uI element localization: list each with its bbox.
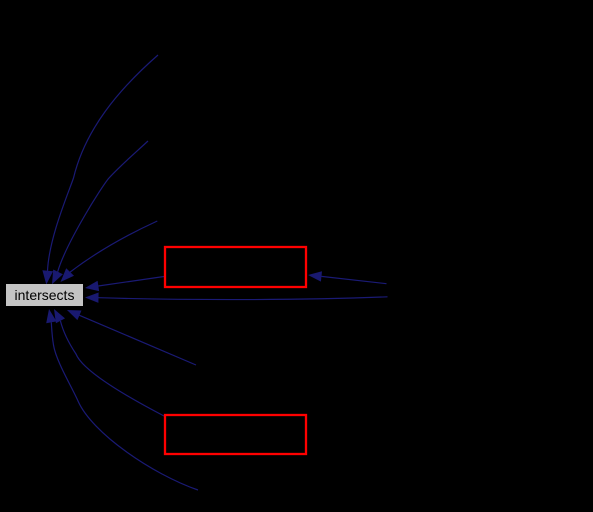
wire: edge E7 from hidden caller (196,365) to node intersects [79, 315, 196, 365]
wire: edge E3 from hidden caller (157,221) to node intersects [70, 221, 157, 272]
node intersects (current function) [6, 284, 83, 306]
wire: edge E5 from hidden caller (387,284) to red node 1 [321, 276, 386, 283]
arrowhead of edge E7 [67, 310, 82, 320]
svg-text:intersects: intersects [15, 287, 75, 303]
arrowhead of edge E3 [61, 268, 75, 282]
arrowhead of edge E9 [46, 309, 56, 323]
arrowhead of edge E5 [308, 271, 322, 281]
wire: edge E9 from hidden caller (198,490) to node intersects [51, 322, 198, 490]
arrowhead of edge E2 [52, 270, 63, 285]
red node 2 (truncated caller, label hidden) [165, 415, 306, 454]
wire: edge E2 from hidden caller (148,141) to node intersects [58, 141, 148, 272]
wire: edge E4 from red node 1 to node intersects [98, 277, 164, 287]
wire: edge E8 from red node 2 to node intersects [60, 321, 164, 416]
arrowhead of edge E6 [85, 293, 99, 303]
arrowhead of edge E4 [85, 281, 99, 291]
red node 1 (truncated caller, label hidden) [165, 247, 306, 287]
arrowhead of edge E1 [42, 270, 53, 284]
wire: edge E1 from hidden caller (158,55) to node intersects [48, 55, 159, 271]
wire: edge E6 from hidden caller (387,297) to node intersects [99, 297, 388, 300]
arrowhead of edge E8 [54, 309, 65, 323]
